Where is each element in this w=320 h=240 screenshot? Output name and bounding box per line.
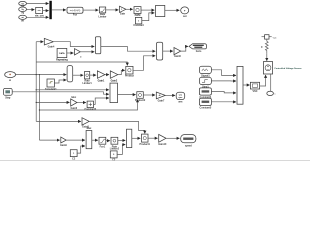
wire xyxy=(118,94,136,96)
svg-text:Mux: Mux xyxy=(87,127,92,130)
wire xyxy=(132,137,141,139)
input port In3 xyxy=(19,15,27,22)
node junction xyxy=(39,74,40,75)
wire xyxy=(90,74,96,76)
svg-text:Gain6: Gain6 xyxy=(70,107,77,110)
wire xyxy=(165,94,175,96)
svg-text:Limiter: Limiter xyxy=(99,15,107,18)
block C5 constant xyxy=(133,17,144,27)
node junction xyxy=(36,89,37,90)
svg-text:PWM: PWM xyxy=(135,14,141,17)
svg-text:Goto: Goto xyxy=(196,50,202,53)
gain G5 xyxy=(75,49,83,59)
wire xyxy=(77,146,85,153)
svg-text:Gain10: Gain10 xyxy=(158,143,167,146)
input port In5 xyxy=(3,88,12,99)
wire bus B2 xyxy=(38,75,40,141)
gain G12 xyxy=(60,137,67,147)
wire xyxy=(181,46,188,51)
svg-text:Constant: Constant xyxy=(133,24,144,27)
output port Out1 xyxy=(181,7,189,18)
svg-text:rpm: rpm xyxy=(179,97,183,99)
svg-text:Gain1: Gain1 xyxy=(98,80,105,83)
wire xyxy=(118,70,125,74)
block C9 xyxy=(110,151,117,162)
wire xyxy=(211,80,236,82)
wire xyxy=(94,98,109,104)
gain G4 xyxy=(44,38,55,48)
svg-text:wt: wt xyxy=(21,19,24,22)
svg-text:wm: wm xyxy=(178,101,182,104)
svg-text:Iabc: Iabc xyxy=(71,96,76,99)
wire xyxy=(16,74,67,76)
gain G7 xyxy=(97,71,105,83)
input port In1 xyxy=(19,1,27,8)
gain G9 xyxy=(70,96,77,110)
wire xyxy=(77,102,86,104)
node junction xyxy=(36,74,37,75)
wire xyxy=(27,16,49,18)
wire bus B1 xyxy=(35,42,37,122)
wire xyxy=(148,137,158,139)
wire xyxy=(66,139,85,141)
svg-text:Gain: Gain xyxy=(120,13,126,16)
gain G11 xyxy=(82,118,89,129)
svg-text:Limiter1: Limiter1 xyxy=(82,82,92,85)
source block D xyxy=(199,98,212,109)
constant block C7 xyxy=(45,79,57,91)
block P5 xyxy=(134,7,141,17)
wire xyxy=(118,139,126,141)
input port In2 xyxy=(19,7,27,15)
node junction xyxy=(36,102,37,103)
svg-text:Product2: Product2 xyxy=(135,99,146,102)
wire xyxy=(67,52,74,54)
wire xyxy=(243,84,250,86)
mux M3 xyxy=(157,42,163,60)
svg-text:Constant1: Constant1 xyxy=(45,88,57,91)
wire xyxy=(52,9,66,11)
wire xyxy=(106,140,110,142)
wire xyxy=(54,80,66,83)
gain G8 xyxy=(110,71,118,83)
scope S1 xyxy=(250,82,259,93)
block RL2 xyxy=(82,72,92,86)
block F1 Fcn xyxy=(67,7,83,16)
wire xyxy=(39,139,59,141)
wire xyxy=(106,9,119,11)
gain G6 xyxy=(174,48,181,59)
mux M2 xyxy=(95,37,100,54)
mux M7 xyxy=(86,127,92,149)
node ground N2 xyxy=(267,91,277,95)
mux M8 xyxy=(127,129,132,147)
svg-text:Gain7: Gain7 xyxy=(158,100,165,103)
wire xyxy=(36,101,69,103)
source VS1 controlled voltage source xyxy=(263,62,302,74)
source block C xyxy=(199,88,212,99)
wire xyxy=(141,9,154,11)
gain G2 xyxy=(120,6,126,15)
wire xyxy=(105,74,109,76)
wire xyxy=(27,9,35,11)
svg-text:Product1: Product1 xyxy=(140,143,151,146)
block T1 sin_cos xyxy=(35,7,45,17)
product P4 xyxy=(140,134,151,146)
svg-text:Gain9: Gain9 xyxy=(60,144,67,147)
svg-text:Fcn: Fcn xyxy=(73,13,78,16)
svg-text:speed: speed xyxy=(185,144,192,147)
mux M5 xyxy=(67,66,73,82)
svg-text:Gain4: Gain4 xyxy=(48,46,55,49)
branch RLC1 xyxy=(261,41,268,61)
wire xyxy=(36,120,81,122)
wire xyxy=(83,9,98,11)
svg-text:Repeating: Repeating xyxy=(56,59,68,62)
mux M4 xyxy=(237,66,243,104)
wire xyxy=(211,70,236,76)
wire xyxy=(260,75,266,86)
svg-text:Limiter2: Limiter2 xyxy=(110,148,120,151)
wire xyxy=(36,41,43,43)
svg-text:Gain5: Gain5 xyxy=(174,55,181,58)
wire xyxy=(12,92,109,94)
product P1 xyxy=(125,66,134,77)
wire xyxy=(27,3,49,5)
wire xyxy=(126,8,133,10)
wire xyxy=(101,47,156,52)
node N1 measurement tap xyxy=(262,35,278,42)
block SUB1 xyxy=(156,5,165,16)
wire xyxy=(89,121,145,133)
goto tag GT1 xyxy=(189,44,206,53)
svg-text:Fcn1: Fcn1 xyxy=(100,145,106,148)
wire xyxy=(36,89,109,91)
svg-text:-K-: -K- xyxy=(158,95,161,97)
gain G13 xyxy=(158,134,167,146)
wire xyxy=(39,99,137,110)
svg-text:DATA: DATA xyxy=(59,52,65,55)
svg-text:w: w xyxy=(9,79,11,82)
wire xyxy=(211,92,236,93)
svg-text:Step: Step xyxy=(5,97,11,100)
wire xyxy=(43,10,49,12)
wire xyxy=(117,145,125,155)
svg-text:sin(u[1]/u[2]): sin(u[1]/u[2]) xyxy=(70,10,81,12)
block RL3 xyxy=(110,137,120,150)
svg-text:Gain2: Gain2 xyxy=(111,80,118,83)
input port In4 xyxy=(5,72,16,82)
block C8 xyxy=(70,150,77,161)
wire xyxy=(142,13,155,21)
source block B xyxy=(199,77,211,88)
wire xyxy=(53,42,94,47)
wire xyxy=(92,139,98,141)
svg-text:Constant5: Constant5 xyxy=(200,106,212,109)
source block A xyxy=(199,66,211,77)
mux bar M1 xyxy=(49,1,51,19)
separator line xyxy=(0,160,310,162)
wire xyxy=(166,137,180,139)
svg-text:sin_cos: sin_cos xyxy=(35,14,45,17)
output port Out3 xyxy=(181,135,196,148)
wire xyxy=(80,51,94,53)
block RS1 repeating sequence xyxy=(56,48,68,61)
wire xyxy=(73,74,84,76)
wire xyxy=(211,101,236,103)
block RL1 rate limiter xyxy=(99,7,107,18)
svg-text:Controlled Voltage Source: Controlled Voltage Source xyxy=(274,67,302,70)
product P2 xyxy=(135,92,146,103)
node junction xyxy=(39,109,40,110)
wire xyxy=(143,94,155,96)
svg-text:Vq: Vq xyxy=(21,12,25,15)
output port Out2 xyxy=(176,92,185,103)
svg-text:VSC: VSC xyxy=(253,90,258,93)
mux M6 xyxy=(110,83,118,103)
wire xyxy=(36,62,127,66)
block SAT1 xyxy=(99,137,106,148)
wire xyxy=(270,74,272,91)
sum S2 xyxy=(84,101,96,111)
svg-text:out: out xyxy=(183,15,187,18)
wire xyxy=(163,50,173,52)
wire xyxy=(133,56,155,71)
gain G10 xyxy=(156,92,165,103)
wire xyxy=(165,9,180,11)
svg-text:Product: Product xyxy=(125,75,134,78)
